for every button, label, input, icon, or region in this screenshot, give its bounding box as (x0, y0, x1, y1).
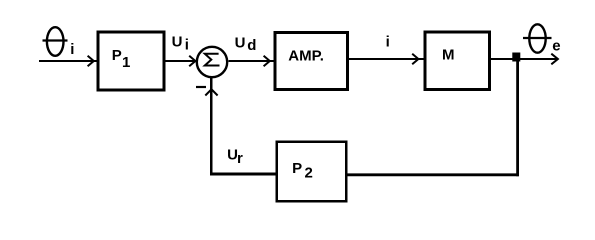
input symbol theta_i crossbar (43, 39, 68, 41)
sigma glyph (205, 54, 220, 66)
block P2 (277, 142, 347, 202)
svg-text:e: e (552, 38, 560, 55)
wire: feedback bottom left segment (210, 173, 276, 176)
block AMP (275, 33, 348, 90)
svg-text:AMP.: AMP. (288, 47, 324, 64)
svg-text:M: M (442, 46, 455, 63)
svg-text:i: i (386, 34, 390, 51)
arrowhead up into summing junction (205, 89, 217, 95)
minus sign at summing junction (196, 86, 206, 88)
svg-text:2: 2 (305, 165, 313, 182)
output symbol theta_e crossbar (523, 37, 552, 39)
svg-text:r: r (237, 150, 243, 167)
svg-text:U: U (235, 35, 246, 52)
wire: AMP to M (349, 58, 424, 60)
svg-text:1: 1 (122, 54, 130, 71)
wire: input line to P1 (39, 60, 97, 62)
output arrowhead (551, 54, 558, 65)
svg-text:P: P (292, 160, 302, 177)
svg-text:i: i (185, 37, 189, 54)
summing junction circle (197, 47, 227, 77)
wire: summing junction to AMP (229, 60, 274, 62)
block M (425, 32, 490, 90)
output symbol theta_e ellipse (529, 24, 545, 52)
wire: feedback vertical to summing junction (210, 78, 213, 176)
block P1 (98, 32, 164, 90)
arrowhead into M (412, 54, 418, 65)
arrowhead into AMP (264, 56, 270, 67)
svg-text:i: i (70, 41, 74, 58)
wire: M to output (491, 58, 558, 60)
wire: P1 to summing junction (166, 60, 197, 62)
input symbol theta_i ellipse (47, 27, 64, 56)
svg-text:P: P (112, 47, 122, 64)
arrowhead into summing junction (189, 56, 195, 67)
svg-text:U: U (172, 34, 183, 51)
wire: feedback vertical from node (516, 62, 519, 177)
node (takeoff point) (512, 53, 520, 62)
wire: feedback bottom right segment (348, 173, 519, 176)
arrowhead into P1 (88, 56, 94, 67)
svg-text:d: d (247, 37, 256, 54)
